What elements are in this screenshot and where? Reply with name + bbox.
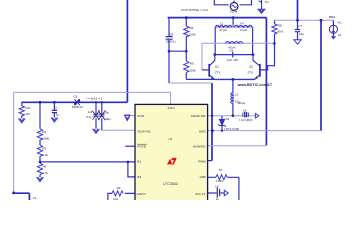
svg-text:www.BDTIC.com/LT: www.BDTIC.com/LT [237, 83, 273, 87]
svg-text:C4: C4 [229, 49, 233, 53]
svg-text:1M: 1M [25, 112, 30, 116]
svg-text:GND: GND [199, 129, 207, 133]
svg-text:L2: L2 [240, 21, 244, 25]
svg-text:PGFB: PGFB [137, 145, 145, 149]
svg-text:10u: 10u [104, 110, 109, 114]
svg-text:U1: U1 [168, 137, 172, 141]
svg-text:R8: R8 [278, 24, 282, 28]
svg-text:VFB: VFB [200, 175, 206, 179]
svg-text:L1: L1 [220, 21, 224, 25]
svg-text:f = fs/16 = 1: f = fs/16 = 1 [87, 96, 103, 100]
svg-text:ZTX: ZTX [247, 71, 253, 75]
svg-text:L4: L4 [243, 108, 247, 112]
svg-text:R7: R7 [219, 168, 223, 172]
svg-text:B1: B1 [137, 160, 141, 164]
svg-text:L3: L3 [235, 92, 239, 96]
svg-text:100p: 100p [104, 117, 111, 121]
svg-text:C1: C1 [54, 105, 58, 109]
svg-text:CB: CB [169, 33, 173, 37]
svg-text:LTST-C190: LTST-C190 [224, 127, 239, 131]
svg-text:1R(B)1C: 1R(B)1C [72, 105, 85, 109]
svg-text:MON/PG: MON/PG [193, 145, 206, 149]
svg-text:B2: B2 [137, 175, 141, 179]
svg-text:12µ: 12µ [235, 100, 240, 104]
svg-text:Q2: Q2 [249, 65, 253, 69]
svg-text:10a: 10a [113, 197, 118, 200]
svg-text:Q1: Q1 [215, 65, 219, 69]
svg-text:PA1: PA1 [329, 15, 335, 19]
svg-text:47µH: 47µH [240, 28, 247, 32]
svg-text:RUN: RUN [137, 114, 144, 118]
svg-text:SGND SW: SGND SW [191, 114, 206, 118]
svg-text:47µH: 47µH [220, 28, 227, 32]
svg-text:S1Ra: S1Ra [230, 10, 238, 14]
svg-text:49.9: 49.9 [277, 30, 283, 34]
svg-text:100k: 100k [189, 32, 196, 36]
svg-text:4.7k: 4.7k [42, 171, 48, 175]
svg-text:100k: 100k [189, 68, 196, 72]
svg-text:R11: R11 [25, 106, 31, 110]
svg-text:4VIN: 4VIN [168, 106, 175, 110]
svg-text:3Ck VT: 3Ck VT [195, 192, 205, 196]
svg-text:1n: 1n [216, 197, 220, 200]
svg-text:(18k): (18k) [42, 137, 49, 141]
svg-text:R4: R4 [190, 26, 194, 30]
svg-text:4.99k: 4.99k [216, 179, 224, 183]
svg-text:R6: R6 [42, 164, 46, 168]
svg-text:10nF(1): 10nF(1) [165, 40, 176, 44]
svg-text:R3: R3 [42, 146, 46, 150]
svg-text:P1u: P1u [86, 115, 92, 119]
svg-text:R5: R5 [190, 62, 194, 66]
svg-text:C6: C6 [215, 185, 219, 189]
svg-text:ZTX: ZTX [215, 71, 221, 75]
svg-text:PWM: PWM [198, 160, 206, 164]
svg-text:1A: 1A [338, 33, 342, 37]
svg-text:LTC3542: LTC3542 [163, 182, 178, 186]
svg-text:AAPVI: AAPVI [136, 192, 145, 196]
svg-text:22µ: 22µ [299, 32, 304, 36]
svg-text:1nF: 1nF [88, 110, 93, 114]
svg-text:SD/SYNC: SD/SYNC [137, 129, 152, 133]
svg-text:I 1(C)R(3): I 1(C)R(3) [239, 118, 252, 122]
svg-text:R9: R9 [117, 186, 121, 190]
svg-text:C7: C7 [298, 24, 302, 28]
svg-text:C9: C9 [73, 95, 77, 99]
svg-text:TH: TH [265, 0, 269, 4]
svg-text:V1: V1 [33, 196, 37, 200]
svg-text:6.2k: 6.2k [42, 153, 48, 157]
svg-text:AC: AC [338, 21, 343, 25]
svg-text:1µF 16V: 1µF 16V [227, 58, 238, 62]
svg-text:1µ: 1µ [56, 113, 60, 117]
svg-text:R2: R2 [42, 130, 46, 134]
svg-text:VOUT RIPPLE = 4mV: VOUT RIPPLE = 4mV [181, 8, 209, 12]
svg-text:D1: D1 [226, 117, 230, 121]
